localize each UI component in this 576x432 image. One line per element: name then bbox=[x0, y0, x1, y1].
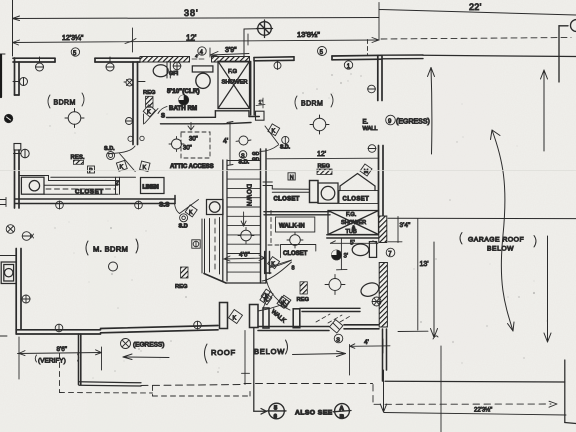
svg-text:ALSO SEE: ALSO SEE bbox=[295, 410, 333, 417]
roof slope arrow down left bbox=[431, 242, 438, 338]
svg-text:LINEN: LINEN bbox=[143, 185, 159, 191]
svg-text:GFI: GFI bbox=[169, 71, 179, 77]
circled 7 marker bbox=[386, 248, 395, 257]
svg-text:REG: REG bbox=[175, 284, 188, 290]
GFI fixture circle bbox=[173, 62, 181, 70]
window screw west wall mbdrm bbox=[22, 295, 30, 303]
screw symbol bedroom2 door bbox=[282, 136, 289, 143]
svg-text:K: K bbox=[147, 110, 151, 116]
label S.D. bedroom2 door bbox=[280, 145, 291, 151]
circled 4 egress marker bbox=[121, 339, 131, 349]
tub front wall bbox=[327, 235, 381, 238]
svg-text:CLOSET: CLOSET bbox=[283, 251, 308, 257]
room label M. BDRM bbox=[86, 239, 138, 255]
svg-text:S.S: S.S bbox=[159, 202, 170, 209]
svg-text:GD: GD bbox=[252, 151, 260, 157]
dimension text 38' bbox=[184, 8, 199, 18]
label ALSO SEE bbox=[295, 410, 333, 417]
svg-text:(EGRESS): (EGRESS) bbox=[396, 119, 430, 126]
arrow right to 4' bbox=[293, 351, 346, 357]
svg-text:E.: E. bbox=[363, 120, 369, 126]
svg-text:4': 4' bbox=[364, 339, 369, 346]
small squiggle above 22'3 dim bbox=[433, 336, 438, 339]
dimension 4'6" stairs bbox=[224, 252, 265, 262]
closet1 top wall bbox=[19, 176, 136, 181]
east wall bedroom2 lower bbox=[379, 146, 384, 217]
ceiling light walkin bbox=[287, 232, 303, 248]
bath vanity counter bbox=[192, 66, 213, 72]
hatched wall mbath east lower bbox=[379, 263, 387, 328]
svg-text:S.D: S.D bbox=[179, 224, 188, 230]
ceiling fan bedroom2 bbox=[310, 115, 329, 134]
dimension line 38' bbox=[13, 16, 380, 21]
ceiling light mbath bbox=[325, 275, 345, 295]
bath sink oval GFI bbox=[153, 65, 168, 77]
wall corner verticals below mbdrm bbox=[79, 334, 81, 385]
tub shower enclosure bbox=[328, 211, 379, 235]
bay fixture box west bbox=[1, 262, 16, 284]
linen closet box bbox=[141, 178, 165, 194]
dimension 3'4" bbox=[388, 217, 411, 243]
svg-text:BATH RM: BATH RM bbox=[169, 105, 197, 112]
label 30" x2 bbox=[183, 137, 198, 152]
top-right fixture marker circle bbox=[559, 20, 576, 83]
circled 9 marker bbox=[386, 115, 396, 125]
ceiling light hall east bbox=[236, 136, 251, 145]
svg-text:BDRM: BDRM bbox=[54, 100, 76, 107]
svg-text:N: N bbox=[290, 175, 294, 181]
leader line to ceiling fixture bbox=[244, 29, 258, 56]
walkin door header peak bbox=[258, 305, 290, 311]
switch diamond mbath A bbox=[260, 293, 272, 305]
label F.G. SHOWER TUB bbox=[341, 212, 366, 235]
circled S south gap bbox=[334, 334, 343, 343]
dimension 2' closet1 bbox=[116, 181, 120, 187]
bath toilet bbox=[196, 73, 210, 88]
left edge sill ticks bbox=[0, 198, 6, 207]
svg-text:4': 4' bbox=[223, 138, 228, 145]
svg-text:5: 5 bbox=[274, 406, 277, 412]
south wall east run bbox=[344, 325, 379, 329]
south wall pillar west bbox=[220, 303, 228, 329]
svg-text:4'6": 4'6" bbox=[239, 252, 250, 259]
window screw symbol hall north bbox=[274, 62, 281, 70]
switch diamond K bedroom1 A bbox=[116, 160, 127, 171]
scan edge dark bar left bbox=[0, 55, 2, 97]
label 8 walkin door bbox=[292, 266, 295, 272]
dimension 8'6 verify bbox=[18, 337, 102, 379]
walkin door diagonal bbox=[263, 292, 270, 309]
garage roof right edge bbox=[565, 360, 576, 424]
closet2 pillar bbox=[310, 181, 319, 203]
label S.S bbox=[159, 202, 170, 209]
svg-text:GD: GD bbox=[252, 157, 260, 163]
label DOWN rotated bbox=[245, 184, 252, 207]
register REG bedroom2 closet bbox=[317, 164, 332, 175]
svg-text:CLOSET: CLOSET bbox=[75, 189, 104, 196]
junction box N bedroom2 bbox=[288, 173, 295, 181]
closet2 peak shape bbox=[340, 174, 375, 191]
label WALK rotated bbox=[270, 309, 287, 324]
dimension text 22' bbox=[469, 2, 482, 12]
walkin north wall bbox=[264, 212, 330, 215]
shower floor dashes below bath bbox=[316, 314, 352, 323]
svg-text:ATTIC ACCESS: ATTIC ACCESS bbox=[170, 164, 214, 170]
hinge circles bedroom1 door bbox=[128, 136, 144, 141]
window screw symbol bedroom1 east bbox=[126, 118, 133, 125]
svg-text:BELOW: BELOW bbox=[254, 347, 285, 356]
svg-text:BELOW: BELOW bbox=[487, 246, 514, 253]
door swing mark below bath wall bbox=[188, 123, 194, 131]
hatched wall bath north east bbox=[212, 57, 250, 63]
arrowhead dashed eave bbox=[549, 401, 557, 407]
svg-text:12': 12' bbox=[186, 34, 197, 43]
left edge tick mbdrm south bbox=[0, 335, 7, 337]
svg-text:BDRM: BDRM bbox=[301, 101, 323, 108]
mbath south wall bbox=[300, 308, 360, 311]
short vertical pair near long leader bbox=[242, 331, 250, 385]
wall arrow down at x383 bbox=[380, 370, 386, 412]
svg-text:K: K bbox=[120, 165, 124, 171]
west wall mbdrm bbox=[16, 249, 21, 335]
south wall pillar east bbox=[250, 305, 259, 328]
label ROOF bbox=[205, 344, 236, 363]
window sill line to edge bbox=[0, 255, 16, 257]
sink oval mbath bbox=[359, 281, 381, 299]
door jamb box hall bbox=[256, 111, 265, 120]
circled 1 marker bedroom2 bbox=[344, 61, 352, 70]
dashed line verify vertical bbox=[60, 354, 251, 397]
mbdrm north wall bbox=[15, 196, 175, 204]
south wall west run bbox=[101, 326, 219, 333]
switch diamond walkin south A bbox=[261, 289, 273, 301]
ceiling fan stairs bbox=[238, 228, 254, 244]
east wall bedroom1 bbox=[133, 62, 138, 145]
lower roof edge solid bbox=[79, 382, 141, 386]
svg-text:REG: REG bbox=[297, 297, 310, 303]
dimension 3'9" text bbox=[225, 47, 237, 54]
toilet mbath bbox=[352, 242, 376, 258]
register REG mbath bbox=[297, 282, 310, 303]
svg-text:8: 8 bbox=[292, 266, 295, 272]
screw fixture mbath sink bbox=[372, 297, 381, 306]
svg-text:K: K bbox=[265, 294, 269, 300]
walkin label CLOSET bbox=[281, 245, 316, 258]
ceiling outlet mbdrm bbox=[109, 262, 118, 271]
svg-text:12': 12' bbox=[317, 151, 326, 158]
stairwell bottom edge bbox=[226, 282, 266, 284]
chase closet beside stairs bbox=[202, 218, 220, 275]
ceiling fixture symbol top bbox=[257, 20, 273, 38]
attic access dashed square bbox=[181, 132, 210, 158]
smoke detector S.D. bedroom1 door bbox=[104, 146, 115, 160]
window symbol west wall A bbox=[13, 78, 28, 86]
labels GD GD bbox=[252, 151, 260, 163]
stairwell west rail bbox=[223, 160, 227, 281]
mbdrm south wall bbox=[16, 330, 100, 334]
wall pillar walkin west bbox=[263, 308, 269, 328]
dimension extension line left bbox=[12, 0, 14, 56]
hatched wall mbath east upper bbox=[379, 216, 387, 243]
svg-text:5'10"(CLR): 5'10"(CLR) bbox=[167, 88, 200, 95]
label S.D mbdrm door bbox=[179, 224, 188, 230]
circled 5 marker bedroom2 bbox=[318, 47, 327, 57]
dimension 3'9" arrow line bbox=[210, 48, 249, 57]
dimension 13' bbox=[398, 219, 429, 332]
walkin label box bbox=[276, 217, 315, 232]
svg-text:GARAGE ROOF: GARAGE ROOF bbox=[468, 237, 524, 244]
svg-text:B: B bbox=[340, 414, 344, 420]
closet1 rod dashed bbox=[46, 188, 115, 190]
svg-text:M: M bbox=[364, 169, 369, 175]
label 5'10"(CLR) bbox=[167, 88, 200, 95]
thermostat box P bbox=[88, 166, 95, 174]
dimension 12' bedroom2 bbox=[267, 151, 378, 159]
north wall bedroom1 right segment bbox=[95, 58, 140, 62]
closet2 front wall jog bbox=[263, 182, 310, 192]
boxed screw fixture below skylight bbox=[192, 240, 200, 248]
dimension text 12'3 1/4" bbox=[62, 35, 84, 42]
switch diamond walkin south B bbox=[279, 295, 291, 307]
circled X fixture top left bbox=[6, 225, 15, 234]
ceiling light hall cross circle bbox=[169, 137, 184, 152]
svg-text:S: S bbox=[241, 153, 245, 159]
svg-text:3': 3' bbox=[344, 254, 348, 260]
dimension line 12'3 / 12' / 13'8 bbox=[13, 28, 380, 52]
svg-text:30": 30" bbox=[189, 137, 198, 143]
faint fold line bbox=[0, 170, 576, 172]
svg-text:(VERIFY): (VERIFY) bbox=[38, 358, 66, 365]
stairwell east wall bbox=[261, 149, 267, 283]
wall end box west bbox=[14, 144, 21, 151]
svg-text:30": 30" bbox=[183, 146, 192, 152]
window symbol bedroom1 north B bbox=[106, 57, 114, 71]
roof slope arrow down right bbox=[544, 236, 551, 342]
lower roof edge dashed mid bbox=[141, 384, 373, 386]
hatched wall bath north west bbox=[140, 57, 190, 63]
dashed reference line to top-right marker bbox=[381, 38, 571, 40]
dimension 3' mbath bbox=[337, 239, 348, 270]
dimension 4' bottom bbox=[350, 339, 391, 375]
svg-text:WALL: WALL bbox=[363, 126, 378, 132]
garage roof ridge curve bbox=[491, 130, 515, 331]
svg-text:(EGRESS): (EGRESS) bbox=[133, 342, 164, 349]
label (EGRESS) bottom bbox=[133, 342, 164, 349]
svg-text:K: K bbox=[189, 210, 193, 216]
roof slope arrow up right bbox=[541, 70, 548, 151]
label F.G SHOWER bbox=[222, 69, 248, 86]
wall bath east of shower bbox=[251, 62, 255, 116]
dimension 22'3 line bbox=[384, 407, 566, 416]
bath south wall west part bbox=[161, 117, 225, 124]
svg-text:K: K bbox=[271, 261, 275, 267]
register REG stairs west bbox=[175, 267, 188, 290]
window screw symbol east wall bbox=[368, 85, 376, 93]
east wall bedroom2 upper bbox=[378, 56, 382, 101]
diamond fixture south gap bbox=[330, 320, 343, 333]
svg-text:K: K bbox=[233, 316, 237, 322]
stair treads bbox=[227, 161, 261, 273]
dimension line 22' sloped bbox=[379, 10, 576, 16]
dimension text 13'8 1/2" bbox=[297, 30, 320, 39]
west exterior wall upper bbox=[15, 58, 20, 95]
dimension 1' hall nook bbox=[256, 98, 265, 108]
svg-text:S: S bbox=[161, 114, 165, 120]
dimension 4' vertical hall bbox=[223, 122, 233, 166]
small dimension mark in bath window gap bbox=[192, 54, 204, 60]
dimension extension line between 38' and 22' bbox=[378, 3, 380, 41]
door arc bath entry bbox=[158, 107, 167, 114]
north wall bedroom2 segment bbox=[332, 55, 382, 60]
door arcs mbath entry bbox=[262, 262, 292, 307]
switch diamond K bedroom1 B bbox=[140, 161, 150, 171]
svg-text:3'9": 3'9" bbox=[225, 47, 237, 54]
window symbol mbdrm north A bbox=[56, 201, 64, 209]
bath south wall notch at shower bbox=[215, 111, 259, 124]
door leaf linen hall bbox=[144, 109, 159, 125]
circled 5 marker left bbox=[71, 48, 79, 57]
room label BDRM bedroom1 bbox=[48, 93, 84, 108]
register REG bath bbox=[143, 90, 156, 107]
closet2 light box bbox=[318, 183, 338, 203]
north wall garage side thick bbox=[382, 55, 423, 59]
dimension 5' tub bbox=[330, 240, 377, 247]
dashed eave line right with arrow bbox=[373, 385, 551, 405]
label GFI bbox=[169, 71, 179, 77]
svg-text:CLOSET: CLOSET bbox=[274, 197, 300, 203]
roof slope arrow up left bbox=[428, 68, 435, 155]
room label BDRM bedroom2 bbox=[295, 94, 333, 109]
svg-text:WALK-IN: WALK-IN bbox=[279, 224, 305, 230]
exhaust fan symbol bath bbox=[179, 95, 189, 105]
walkin dashed rod lines bbox=[268, 211, 282, 246]
svg-text:12'3¼": 12'3¼" bbox=[62, 35, 84, 42]
detail marker circle A B bbox=[333, 404, 351, 421]
svg-text:F.G: F.G bbox=[228, 69, 238, 75]
switch diamond K bedroom2 door bbox=[268, 124, 280, 136]
svg-text:REG: REG bbox=[143, 90, 156, 96]
west exterior wall lower bbox=[15, 150, 20, 208]
window symbol mbdrm north B bbox=[135, 201, 143, 209]
north wall bedroom1 left segment bbox=[13, 58, 55, 62]
door arc mbdrm entry bbox=[175, 200, 199, 214]
svg-text:ROOF: ROOF bbox=[211, 348, 236, 357]
label BATH RM bbox=[169, 105, 197, 112]
svg-text:22': 22' bbox=[469, 2, 482, 12]
svg-text:22'3½": 22'3½" bbox=[474, 407, 492, 414]
label S.D. hall bbox=[239, 160, 250, 166]
svg-text:4': 4' bbox=[195, 54, 199, 59]
ceiling fan bedroom1 bbox=[65, 109, 84, 128]
svg-text:8'6": 8'6" bbox=[57, 346, 67, 353]
detail marker circle bottom center bbox=[267, 403, 286, 420]
svg-text:S: S bbox=[336, 337, 340, 343]
closet1 band bbox=[44, 177, 120, 194]
garage roof top edge line bbox=[388, 217, 576, 219]
walkin west wall bbox=[265, 252, 271, 274]
roof edge line top right bbox=[423, 55, 576, 56]
svg-text:DOWN: DOWN bbox=[245, 184, 252, 207]
arrow down stairs bbox=[241, 212, 246, 226]
svg-text:SHOWER: SHOWER bbox=[222, 80, 248, 86]
arrow left egress bbox=[123, 354, 169, 360]
north wall hall segment bbox=[254, 57, 294, 61]
label GARAGE ROOF BELOW bbox=[460, 233, 536, 253]
scan speckle noise bbox=[35, 73, 548, 379]
switch diamond mbath B bbox=[277, 296, 289, 308]
svg-text:2': 2' bbox=[116, 181, 120, 187]
switch diamond K bath lower left bbox=[143, 105, 155, 117]
door arc bedroom1 bbox=[108, 146, 135, 172]
shower enclosure F.G. bbox=[218, 61, 250, 108]
label (EGRESS) top bbox=[396, 119, 430, 126]
svg-text:P: P bbox=[89, 168, 93, 174]
dimension text 12' bbox=[186, 34, 197, 43]
dashed jog at 13-8 dimension end bbox=[367, 40, 369, 55]
label ATTIC ACCESS bbox=[170, 164, 214, 170]
garage roof bottom edge bbox=[385, 380, 565, 383]
svg-text:M. BDRM: M. BDRM bbox=[93, 245, 128, 254]
closet rod dashed beside stairs bbox=[214, 219, 216, 272]
label CLOSET left his bbox=[274, 197, 300, 203]
switch diamond stairs south bbox=[229, 310, 243, 324]
stairwell angled bottom bbox=[204, 274, 226, 284]
svg-text:38': 38' bbox=[184, 8, 199, 18]
bath partition wall at vanity bbox=[167, 62, 170, 79]
screw fixture top left bbox=[22, 232, 33, 241]
window symbol mbdrm south bbox=[55, 324, 63, 332]
extension line at x441 bbox=[440, 346, 442, 432]
door walkin entry bbox=[270, 260, 292, 268]
east wall run down to garage bbox=[383, 329, 387, 381]
register RES label bedroom1 bbox=[71, 155, 85, 164]
svg-text:6: 6 bbox=[274, 414, 277, 420]
skylight box head of stairs bbox=[207, 200, 224, 215]
dark detector blob west bbox=[4, 114, 12, 122]
svg-text:K: K bbox=[272, 129, 276, 135]
svg-text:3'4": 3'4" bbox=[400, 222, 411, 229]
switch diamond M bedroom2 closet bbox=[360, 164, 372, 176]
switch diamond walkin door bbox=[268, 257, 280, 269]
label E. WALL bbox=[363, 120, 378, 133]
south wall center run bbox=[258, 327, 329, 331]
circled S smoke detector hall bbox=[239, 151, 247, 160]
label CLOSET closet1 bbox=[75, 189, 104, 196]
svg-text:CLOSET: CLOSET bbox=[343, 197, 370, 203]
label CLOSET right hers boxed bbox=[339, 191, 378, 204]
svg-text:S.D.: S.D. bbox=[104, 146, 115, 152]
window screw symbol east wall lower bbox=[368, 145, 376, 153]
window symbol bedroom1 north A bbox=[36, 57, 44, 71]
circled 4 marker bbox=[198, 47, 206, 56]
left edge tick below dims bbox=[0, 53, 5, 55]
label S bath door bbox=[161, 114, 165, 120]
svg-text:S.D.: S.D. bbox=[280, 145, 291, 151]
window symbol south wall bbox=[194, 321, 202, 329]
door leaf hall to bedroom2 bbox=[260, 126, 279, 152]
wall pillar walkin east bbox=[293, 309, 300, 328]
svg-text:K: K bbox=[283, 300, 287, 306]
exhaust fan mbath bbox=[332, 250, 342, 260]
long leader line to marker bbox=[254, 328, 267, 414]
svg-text:F.G.: F.G. bbox=[346, 212, 357, 218]
closet1 fixture box bbox=[21, 177, 44, 194]
label BELOW bbox=[254, 340, 288, 356]
double circle fixture mbdrm door bbox=[180, 214, 188, 222]
svg-text:13': 13' bbox=[420, 261, 429, 268]
window screw symbol bedroom1 east upper bbox=[124, 79, 145, 86]
svg-text:13'8½": 13'8½" bbox=[297, 30, 320, 39]
